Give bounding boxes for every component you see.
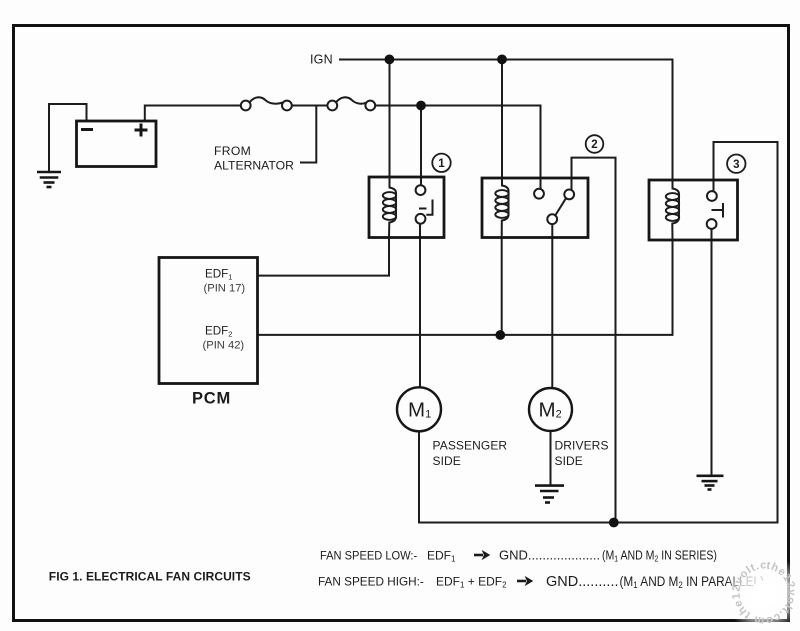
svg-text:EDF1 + EDF2: EDF1 + EDF2	[436, 575, 507, 590]
svg-text:ALTERNATOR: ALTERNATOR	[214, 159, 294, 173]
svg-text:(M1 AND M2 IN SERIES): (M1 AND M2 IN SERIES)	[602, 547, 717, 563]
svg-text:2: 2	[591, 139, 597, 151]
svg-text:FAN SPEED LOW:-: FAN SPEED LOW:-	[320, 550, 417, 562]
svg-text:1: 1	[438, 158, 445, 170]
svg-text:PCM: PCM	[192, 390, 231, 408]
svg-text:PASSENGER: PASSENGER	[433, 439, 508, 453]
svg-text:DRIVERS: DRIVERS	[555, 439, 609, 453]
svg-text:SIDE: SIDE	[433, 454, 461, 468]
svg-text:FROM: FROM	[214, 144, 251, 158]
svg-text:FIG 1. ELECTRICAL FAN CIRCUITS: FIG 1. ELECTRICAL FAN CIRCUITS	[49, 570, 251, 584]
svg-text:3: 3	[733, 159, 739, 171]
svg-text:GND..........: GND..........	[546, 574, 619, 590]
svg-text:FAN SPEED HIGH:-: FAN SPEED HIGH:-	[318, 574, 424, 588]
svg-text:SIDE: SIDE	[555, 454, 583, 468]
svg-text:(PIN 42): (PIN 42)	[203, 340, 245, 352]
svg-text:IGN: IGN	[310, 53, 333, 67]
svg-text:(PIN 17): (PIN 17)	[204, 283, 246, 295]
svg-text:GND....................: GND....................	[499, 548, 600, 563]
